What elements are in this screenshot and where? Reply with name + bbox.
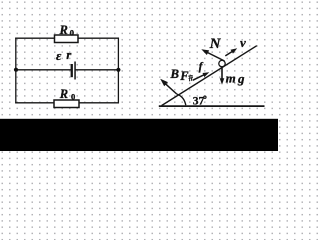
svg-text:g: g: [237, 71, 245, 86]
vector mg arrow (gravity, down): [220, 67, 225, 85]
resistor R0 (bottom): [54, 100, 79, 108]
vector N arrow (normal force, up-left): [201, 49, 224, 61]
wire left vertical: [15, 38, 17, 104]
black censor bar at bottom: [0, 119, 278, 151]
wire bottom horizontal: [15, 102, 119, 104]
svg-text:R: R: [59, 87, 68, 101]
vector B arrow (magnetic field, up-left): [160, 79, 177, 94]
wire: circuit outer rectangle: [15, 38, 119, 104]
vector v arrow (velocity, up-slope): [225, 48, 237, 56]
svg-text:r: r: [66, 47, 72, 62]
svg-text:37: 37: [193, 96, 205, 108]
battery cell: long thin positive plate: [74, 62, 76, 80]
svg-text:0: 0: [71, 92, 75, 102]
wire middle branch left segment: [16, 69, 71, 71]
wire top horizontal: [15, 37, 119, 39]
junction dot left node: [14, 68, 18, 72]
wire middle branch right segment: [75, 69, 118, 71]
svg-text:0: 0: [70, 28, 74, 38]
svg-text:f: f: [199, 61, 204, 73]
junction dot right node: [116, 68, 120, 72]
svg-text:F: F: [179, 69, 189, 83]
svg-text:ε: ε: [56, 48, 62, 63]
svg-text:N: N: [209, 36, 222, 52]
svg-text:m: m: [226, 70, 236, 85]
subscript glyph after F: [188, 75, 193, 82]
svg-text:B: B: [169, 66, 179, 81]
battery cell: short thick negative plate: [71, 64, 73, 77]
rod (circle) on incline: [219, 60, 225, 66]
wire right vertical: [117, 38, 119, 104]
incline surface line (37 degrees): [162, 46, 257, 106]
vector f arrow (friction, up-slope): [193, 72, 210, 80]
resistor R0 (top): [55, 35, 79, 43]
svg-text:v: v: [240, 35, 246, 50]
svg-text:R: R: [59, 23, 68, 37]
ground baseline of incline: [159, 105, 265, 107]
angle arc: [177, 94, 186, 105]
